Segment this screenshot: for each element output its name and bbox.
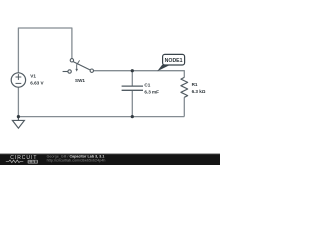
wire: C1 top lead <box>131 71 133 86</box>
svg-text:LAB: LAB <box>29 160 38 164</box>
svg-text:6.3 mF: 6.3 mF <box>144 90 159 95</box>
svg-text:R1: R1 <box>192 82 198 87</box>
svg-text:C1: C1 <box>144 83 150 88</box>
wire: left vertical from V1 top to top-left corner and across top to switch <box>18 28 72 73</box>
footer CircuitLab logo <box>6 155 38 164</box>
wire: switch right terminal to top-right corner, down to R1 top <box>94 71 185 78</box>
footer bar <box>0 154 220 165</box>
node NODE1 box <box>163 54 185 65</box>
node NODE1 flag pointer <box>157 65 169 72</box>
junction: ground node <box>17 115 20 118</box>
toggle arrow <box>77 60 80 69</box>
wire: C1 bottom lead <box>131 90 133 116</box>
junction: C1 top node <box>131 69 134 72</box>
svg-text:SW1: SW1 <box>75 78 85 83</box>
label C1 value <box>144 83 159 95</box>
svg-text:6.3 kΩ: 6.3 kΩ <box>192 89 206 94</box>
voltage source V1 <box>11 73 25 87</box>
lever <box>73 62 90 70</box>
resistor R1 <box>181 77 188 97</box>
terminal top <box>70 59 73 62</box>
ground <box>12 117 24 129</box>
svg-text:NODE1: NODE1 <box>165 58 183 64</box>
terminal right <box>90 69 93 72</box>
capacitor C1 <box>122 86 143 90</box>
junction: C1 bottom node <box>131 115 134 118</box>
label V1 value <box>30 74 44 86</box>
wire: R1 bottom to bottom bus corner <box>183 97 185 116</box>
svg-text:V1: V1 <box>30 74 36 79</box>
svg-text:http://circuitlab.com/c6wb5xb2: http://circuitlab.com/c6wb5xb24p4h <box>47 159 106 163</box>
wire: bottom bus from ground junction to right corner <box>18 116 184 118</box>
label R1 value <box>192 82 206 94</box>
svg-text:6.63 V: 6.63 V <box>30 81 44 86</box>
wire: V1 bottom to ground junction <box>17 87 19 116</box>
terminal left with stub <box>63 71 68 73</box>
switch SW1 <box>63 59 94 74</box>
